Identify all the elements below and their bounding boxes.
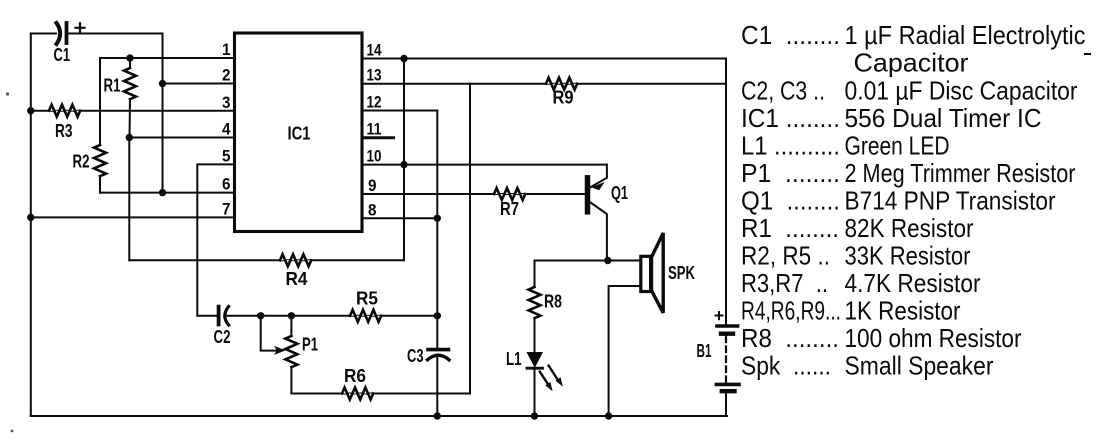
svg-text:R4,R6,R9...: R4,R6,R9... xyxy=(741,296,841,326)
resistor R8 vertical xyxy=(529,261,541,353)
node dot pin2 on x162 leg xyxy=(159,80,166,87)
wire pin 3 (node with R3) xyxy=(31,110,235,112)
Q1 collector lead xyxy=(591,203,607,261)
svg-text:3: 3 xyxy=(222,93,231,112)
wire pin 10 across to Q1 emitter corner xyxy=(362,164,607,166)
node dot pin3/R3 left rail xyxy=(27,107,34,114)
svg-text:R7: R7 xyxy=(500,199,519,219)
wire R4 horizontal xyxy=(129,259,404,261)
wire speaker bottom terminal down to rail xyxy=(609,286,641,416)
svg-text:10: 10 xyxy=(367,147,382,166)
LED L1 triangle xyxy=(528,353,542,367)
svg-text:556 Dual Timer IC: 556 Dual Timer IC xyxy=(845,103,1042,133)
svg-text:82K Resistor: 82K Resistor xyxy=(845,213,974,243)
svg-text:Small Speaker: Small Speaker xyxy=(845,351,994,381)
capacitor C3 xyxy=(428,350,450,360)
node dot R1 top on pin1 wire xyxy=(126,54,133,61)
wire pin 2 xyxy=(163,83,235,85)
svg-text:11: 11 xyxy=(367,120,382,139)
scan speck left xyxy=(6,92,9,95)
svg-text:5: 5 xyxy=(222,146,231,165)
svg-text:R5: R5 xyxy=(356,289,378,309)
battery B1 plus sign xyxy=(716,312,723,319)
node dot pin4 R1 bottom xyxy=(126,134,133,141)
trimmer resistor P1 body xyxy=(285,316,297,394)
svg-text:Q1: Q1 xyxy=(611,183,628,203)
svg-text:C1: C1 xyxy=(54,45,71,65)
wire C2 to R5 to C3 junction xyxy=(227,315,438,317)
svg-text:L1 ..........: L1 .......... xyxy=(741,131,840,161)
battery B1 cell 1 short plate xyxy=(721,332,733,336)
svg-text:R2: R2 xyxy=(73,152,90,172)
node dot P1 top junction xyxy=(288,312,295,319)
resistor R2 vertical on x100 leg xyxy=(94,58,106,193)
resistor R3 xyxy=(49,105,80,117)
wire pin 7 xyxy=(31,216,235,218)
resistor R9 xyxy=(546,78,577,90)
node dot pin10 x404 xyxy=(400,161,407,168)
wire LED to rail xyxy=(534,368,536,416)
wire vertical x162 from top rail to pin6 xyxy=(162,34,164,193)
wire top rail C1 right segment xyxy=(69,33,163,35)
svg-text:7: 7 xyxy=(222,199,231,218)
node dot pin7 left rail xyxy=(27,214,34,221)
wire pin 1 xyxy=(100,57,235,59)
svg-text:14: 14 xyxy=(367,41,382,60)
svg-text:R9: R9 xyxy=(553,88,574,108)
LED L1 cathode bar xyxy=(527,367,543,370)
svg-text:R8: R8 xyxy=(544,292,562,312)
wire pin 6 xyxy=(100,192,235,194)
battery B1 cell 2 long plate xyxy=(716,383,739,387)
node dot LED on rail xyxy=(531,412,538,419)
scan speck bottom left xyxy=(11,430,14,433)
svg-text:Capacitor: Capacitor xyxy=(854,48,969,78)
wire pin 5 with elbow down to C2 xyxy=(197,164,234,315)
svg-text:P1: P1 xyxy=(302,335,318,355)
svg-text:Q1 ........: Q1 ........ xyxy=(741,186,840,216)
svg-text:4: 4 xyxy=(222,120,231,139)
svg-text:P1 ........: P1 ........ xyxy=(741,158,840,188)
wire vertical x470 pin13 down to R6 xyxy=(469,84,471,394)
node dot R5/C3/pin12 junction xyxy=(434,312,441,319)
svg-text:R6: R6 xyxy=(344,366,366,386)
wire pin 12 elbow down xyxy=(362,111,437,348)
wire vertical x404 pin14/pin10/R4 xyxy=(403,59,405,261)
svg-text:2 Meg Trimmer Resistor: 2 Meg Trimmer Resistor xyxy=(845,158,1076,188)
wire left rail xyxy=(30,34,32,417)
node dot C3 on rail xyxy=(434,412,441,419)
wire collector junction to speaker top terminal xyxy=(608,260,641,262)
svg-text:13: 13 xyxy=(367,66,382,85)
svg-text:12: 12 xyxy=(367,93,382,112)
wire pin 13 to right rail through R9 xyxy=(362,83,726,85)
svg-text:33K Resistor: 33K Resistor xyxy=(845,241,971,271)
svg-text:SPK: SPK xyxy=(668,263,695,283)
svg-text:Green LED: Green LED xyxy=(845,131,950,161)
capacitor C2 xyxy=(219,307,229,326)
svg-text:1: 1 xyxy=(222,40,231,59)
svg-text:C2: C2 xyxy=(214,327,231,347)
wire C3 bottom to ground rail xyxy=(436,358,438,416)
wire top rail C1 left segment xyxy=(31,33,56,35)
resistor R7 xyxy=(494,188,525,200)
wire pin 8 xyxy=(362,217,437,219)
svg-text:R2, R5 ..: R2, R5 .. xyxy=(741,241,830,271)
wire R6 horizontal xyxy=(291,393,470,395)
IC op-amp/timer U1 box IC1 xyxy=(235,33,363,232)
svg-text:IC1: IC1 xyxy=(288,124,311,144)
LED light arrow 2 xyxy=(549,366,563,387)
node dot C2 wiper junction xyxy=(257,312,264,319)
battery B1 cell 1 long plate xyxy=(717,324,738,328)
speaker SPK cone xyxy=(652,233,664,313)
svg-text:B714 PNP Transistor: B714 PNP Transistor xyxy=(845,186,1056,216)
svg-text:R3,R7 ..: R3,R7 .. xyxy=(741,268,828,298)
svg-text:R4: R4 xyxy=(286,269,308,289)
svg-text:L1: L1 xyxy=(506,349,522,369)
battery B1 cell 2 short plate xyxy=(722,389,735,393)
svg-text:4.7K Resistor: 4.7K Resistor xyxy=(845,268,981,298)
svg-text:C3: C3 xyxy=(407,346,424,366)
P1 wiper arrowhead xyxy=(274,346,286,355)
svg-text:Spk ......: Spk ...... xyxy=(741,351,831,381)
parts list hyphen artifact xyxy=(1084,53,1091,55)
node dot pin8 x437 xyxy=(434,215,441,222)
node dot Q1 collector junction xyxy=(604,257,611,264)
node dot pin14 x404 xyxy=(400,55,407,62)
svg-text:B1: B1 xyxy=(697,341,712,361)
svg-text:IC1 ........: IC1 ........ xyxy=(741,103,840,133)
wire right rail down to battery xyxy=(725,59,727,325)
svg-text:R1: R1 xyxy=(104,76,121,96)
svg-text:C1 ........: C1 ........ xyxy=(741,20,840,50)
svg-text:1K Resistor: 1K Resistor xyxy=(845,296,961,326)
wire pin 14 to right rail xyxy=(362,58,726,60)
node dot pin6 on x162 leg xyxy=(159,189,166,196)
svg-text:0.01 µF Disc Capacitor: 0.01 µF Disc Capacitor xyxy=(845,76,1078,106)
node dot speaker return on rail xyxy=(605,412,612,419)
svg-text:1 µF Radial Electrolytic: 1 µF Radial Electrolytic xyxy=(845,20,1086,50)
svg-text:6: 6 xyxy=(222,175,231,194)
LED light arrow 1 xyxy=(540,372,553,392)
resistor R6 xyxy=(342,388,373,400)
svg-text:2: 2 xyxy=(222,66,231,85)
pin 11 stub xyxy=(362,136,394,139)
wire pin 9 to Q1 base through R7 xyxy=(362,193,585,195)
wire R1/R4 column pin4 down to R4 xyxy=(128,138,130,261)
wire C2 line left segment xyxy=(197,315,216,317)
svg-text:9: 9 xyxy=(368,176,377,195)
svg-text:R8 ........: R8 ........ xyxy=(741,323,839,353)
speaker SPK driver rectangle xyxy=(641,256,651,291)
svg-text:R1 ........: R1 ........ xyxy=(741,213,839,243)
wire bottom rail xyxy=(31,415,727,417)
resistor R1 vertical with leads pin1 to pin4 xyxy=(124,58,136,138)
svg-text:R3: R3 xyxy=(55,121,73,141)
wire battery bottom to rail corner xyxy=(725,393,727,416)
svg-text:100 ohm Resistor: 100 ohm Resistor xyxy=(845,323,1022,353)
resistor R5 xyxy=(350,310,381,322)
Q1 emitter lead from pin10 wire xyxy=(591,165,607,188)
svg-text:C2, C3 ..: C2, C3 .. xyxy=(741,76,825,106)
wire collector junction to R8 top xyxy=(535,260,608,262)
svg-text:8: 8 xyxy=(368,200,377,219)
trimmer P1 wiper wire and arrow xyxy=(261,316,276,351)
C1 plus sign xyxy=(76,23,85,32)
Q1 emitter arrowhead (PNP) xyxy=(591,182,605,190)
capacitor C1 xyxy=(57,23,67,44)
wire pin 4 xyxy=(129,137,234,139)
resistor R4 xyxy=(280,254,311,266)
transistor Q1 base bar xyxy=(585,178,591,212)
battery B1 dashed link xyxy=(725,337,727,382)
